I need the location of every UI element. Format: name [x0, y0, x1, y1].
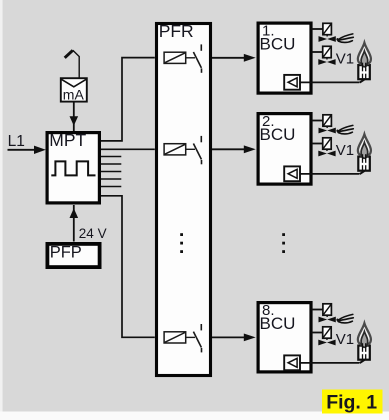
- bus stub 2: [101, 163, 121, 165]
- svg-text:BCU: BCU: [260, 125, 296, 144]
- bus stub 1: [101, 156, 121, 158]
- wire PFR to BCU2: [212, 148, 245, 150]
- arrowhead PFP to MPT: [70, 208, 79, 218]
- block PFP: [47, 244, 99, 268]
- svg-text:PFP: PFP: [50, 244, 82, 262]
- wire flame sensor to BCU1: [300, 81, 359, 83]
- relay K2: [164, 136, 201, 164]
- wire BCU8 to valve V1: [312, 332, 323, 334]
- arrowhead into BCU8: [244, 334, 256, 342]
- wire PFP to MPT: [73, 205, 75, 242]
- square wave symbol: [51, 161, 95, 175]
- arrowhead into BCU2: [244, 145, 256, 153]
- svg-text:mA: mA: [63, 87, 85, 103]
- block BCU1: [258, 23, 311, 93]
- flame amplifier box BCU1: [284, 75, 300, 90]
- wire BCU1 to valve V1a: [312, 28, 324, 30]
- meter mA: [61, 78, 87, 102]
- arrowhead L1 into MPT: [34, 146, 46, 154]
- block PFR: [157, 21, 211, 376]
- arrowhead into BCU1: [244, 54, 256, 62]
- gas flow lines BCU8: [337, 314, 353, 323]
- arrowhead mA to MPT: [70, 116, 79, 126]
- svg-text:L1: L1: [8, 133, 25, 150]
- figure label Fig. 1: [322, 390, 383, 414]
- svg-text:V1: V1: [336, 51, 354, 68]
- solenoid valve V1 of BCU8: [318, 327, 335, 346]
- dots PFR: [180, 233, 183, 253]
- solenoid valve V1 of BCU2: [318, 138, 335, 157]
- svg-text:Fig. 1: Fig. 1: [326, 391, 377, 413]
- svg-text:PFR: PFR: [159, 21, 194, 41]
- bus stub 3: [101, 171, 121, 173]
- solenoid valve V1a: [319, 23, 336, 42]
- solenoid valve V8a: [319, 304, 336, 323]
- relay K1: [164, 44, 201, 72]
- flame amplifier box BCU2: [284, 166, 300, 181]
- antenna / remote signal symbol: [65, 50, 80, 77]
- flame amplifier box BCU8: [284, 355, 300, 370]
- burner and flame BCU1: [358, 43, 371, 83]
- wire mA to MPT: [73, 102, 75, 131]
- gas flow lines BCU2: [337, 125, 353, 134]
- wire BCU2 to valve V1a: [312, 120, 324, 122]
- bottom white page edge: [0, 412, 389, 420]
- burner and flame BCU2: [358, 134, 371, 174]
- wire A: MPT to PFR relay 1: [101, 58, 155, 141]
- block BCU2: [258, 114, 311, 185]
- bus stub 5: [101, 186, 121, 188]
- svg-text:V1: V1: [336, 331, 354, 348]
- dots between BCU 2 and BCU 8: [282, 233, 285, 253]
- wire flame sensor to BCU2: [300, 173, 359, 175]
- svg-text:BCU: BCU: [260, 34, 296, 53]
- bus stub 4: [101, 178, 121, 180]
- gas flow lines BCU1: [337, 34, 353, 43]
- wire BCU2 to valve V1: [312, 143, 323, 145]
- wire BCU8 to valve V1a: [312, 309, 324, 311]
- wire C: MPT to PFR relay 8: [101, 196, 155, 337]
- wire PFR to BCU1: [212, 57, 245, 59]
- svg-text:V1: V1: [336, 142, 354, 159]
- wire B: MPT to PFR relay 2: [101, 148, 155, 150]
- solenoid valve V2a: [319, 115, 336, 134]
- block MPT: [47, 130, 99, 203]
- solenoid valve V1: [318, 46, 335, 65]
- block BCU8: [258, 303, 311, 372]
- wire BCU1 to valve V1: [312, 51, 323, 53]
- wire L1 input: [8, 149, 37, 151]
- left white page edge: [0, 0, 3, 420]
- svg-text:24 V: 24 V: [79, 226, 107, 241]
- burner and flame BCU8: [358, 323, 371, 363]
- wire flame sensor to BCU8: [300, 362, 359, 364]
- svg-text:MPT: MPT: [49, 130, 86, 150]
- wire PFR to BCU8: [212, 336, 245, 338]
- svg-text:BCU: BCU: [260, 314, 296, 333]
- relay K8: [164, 324, 201, 352]
